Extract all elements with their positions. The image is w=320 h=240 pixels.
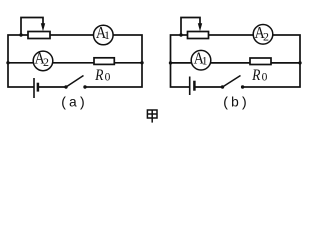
svg-text:R: R: [94, 67, 103, 84]
svg-text:1: 1: [202, 56, 208, 68]
svg-text:R: R: [251, 67, 260, 84]
svg-text:(b): (b): [222, 96, 249, 112]
svg-text:2: 2: [43, 55, 49, 69]
svg-text:(a): (a): [60, 96, 87, 112]
svg-text:2: 2: [263, 30, 269, 44]
svg-text:1: 1: [104, 30, 110, 42]
svg-text:0: 0: [262, 72, 268, 84]
svg-text:0: 0: [105, 72, 111, 84]
